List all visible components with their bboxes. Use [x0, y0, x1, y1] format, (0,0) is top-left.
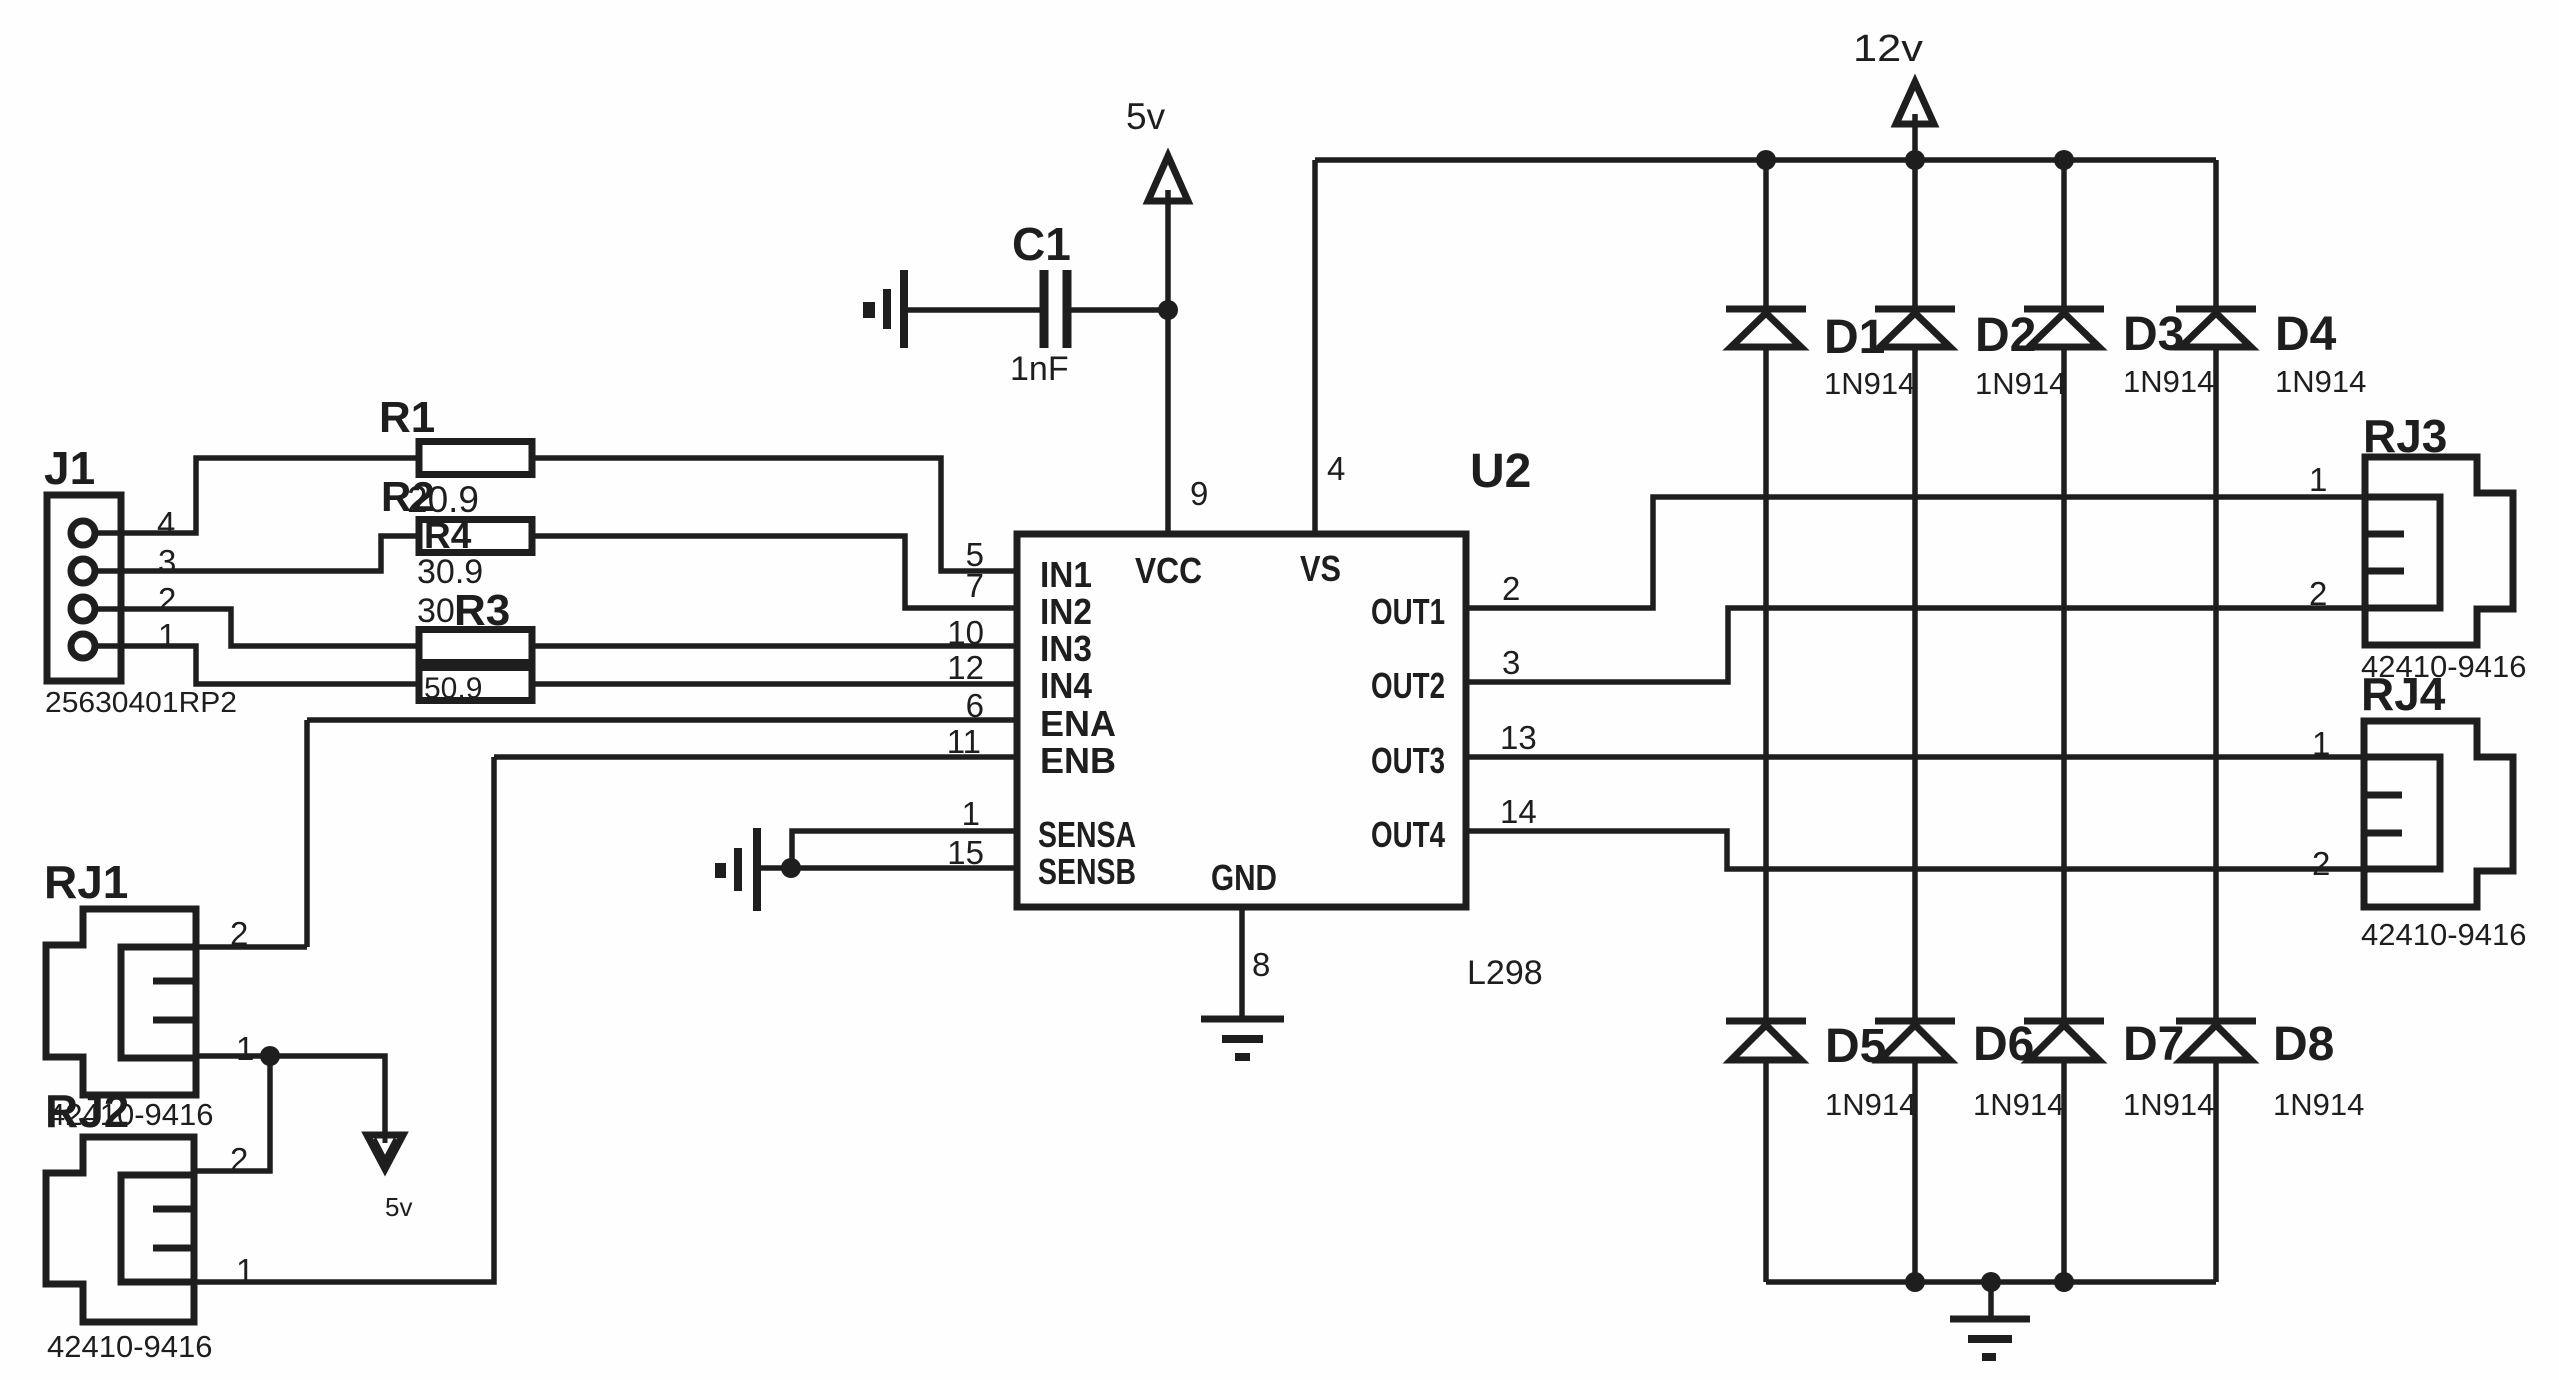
diode D5 — [1726, 1020, 1916, 1122]
svg-text:C1: C1 — [1012, 218, 1071, 270]
svg-text:20.9: 20.9 — [407, 479, 479, 520]
svg-text:1: 1 — [2312, 725, 2330, 762]
wire VS pin 4 riser — [1312, 160, 1318, 534]
node junction bus/D3 column — [2054, 150, 2074, 170]
resistor R4 body with value 50.9 — [419, 668, 532, 706]
svg-text:10: 10 — [947, 614, 984, 651]
svg-text:4: 4 — [157, 505, 175, 542]
node junction bus/D6 column — [1905, 1272, 1925, 1292]
earth ground at bottom bus — [1950, 1282, 2030, 1357]
svg-text:2: 2 — [158, 581, 176, 618]
earth ground at U2 GND — [1201, 1019, 1284, 1057]
diode D3 — [2024, 308, 2214, 399]
wire RJ1 pin2 — [196, 944, 307, 950]
node junction SENSA/SENSB — [781, 858, 801, 878]
svg-text:OUT1: OUT1 — [1371, 591, 1445, 632]
svg-text:1N914: 1N914 — [2275, 364, 2366, 399]
connector J1 — [44, 442, 237, 719]
diode D8 — [2176, 1018, 2364, 1122]
bottom ground bus wire — [1766, 1279, 2216, 1285]
svg-text:1N914: 1N914 — [1825, 1087, 1916, 1122]
svg-text:4: 4 — [1327, 450, 1345, 487]
svg-text:D2: D2 — [1975, 309, 2036, 362]
svg-text:ENA: ENA — [1040, 703, 1116, 744]
value 30. and resistor R3 label — [417, 586, 510, 635]
svg-text:J1: J1 — [44, 442, 95, 494]
svg-text:D8: D8 — [2273, 1018, 2334, 1071]
wire OUT1 to RJ3 pin1 — [1466, 497, 2365, 608]
resistor R3 body — [419, 630, 532, 663]
J1 pin 3 circle — [71, 559, 95, 583]
svg-text:5v: 5v — [385, 1192, 412, 1222]
connector RJ3 — [2309, 410, 2527, 684]
svg-text:IN2: IN2 — [1040, 591, 1092, 632]
diode D6 — [1875, 1018, 2064, 1122]
svg-text:2: 2 — [2309, 575, 2327, 612]
wire riser RJ1 pin2 to ENA — [304, 720, 310, 947]
svg-text:IN3: IN3 — [1040, 628, 1092, 669]
RJ1 part number and RJ2 label overlapping — [45, 1085, 214, 1137]
diode D7 — [2024, 1018, 2214, 1122]
wire OUT4 to RJ4 pin2 — [1466, 831, 2364, 869]
svg-text:1: 1 — [236, 1030, 254, 1067]
svg-text:L298: L298 — [1467, 954, 1543, 992]
svg-text:1N914: 1N914 — [2123, 364, 2214, 399]
wire J1.2 to R3 to U2.IN3 — [95, 609, 1017, 646]
power 12v arrow — [1853, 28, 1934, 160]
svg-text:3: 3 — [158, 543, 176, 580]
svg-text:42410-9416: 42410-9416 — [2361, 917, 2527, 952]
wire D1/D5 column — [1763, 160, 1769, 1282]
wire VCC pin 9 — [1165, 310, 1171, 534]
wire D3/D7 column — [2061, 160, 2067, 1282]
svg-text:50.9: 50.9 — [424, 672, 482, 705]
svg-text:SENSB: SENSB — [1038, 851, 1136, 892]
svg-text:D1: D1 — [1824, 311, 1885, 364]
power 5v arrow top — [1126, 96, 1188, 310]
svg-text:U2: U2 — [1470, 445, 1531, 498]
resistor R1 — [379, 393, 532, 475]
power 5v arrow down — [367, 1135, 412, 1222]
wire U2 GND pin 8 — [1239, 907, 1245, 1019]
svg-text:3: 3 — [1502, 644, 1520, 681]
connector RJ4 — [2312, 668, 2527, 952]
svg-text:2: 2 — [1502, 570, 1520, 607]
node junction bus/D1 column — [1756, 150, 1776, 170]
wire RJ1 pin1 to 5v and RJ2 pin2 — [196, 1056, 385, 1135]
svg-text:14: 14 — [1500, 793, 1537, 830]
node junction bus/D7 column — [2054, 1272, 2074, 1292]
ground (power bar) at SENSB — [715, 828, 757, 911]
svg-text:5v: 5v — [1126, 96, 1166, 137]
svg-text:1: 1 — [962, 795, 980, 832]
svg-text:9: 9 — [1190, 475, 1208, 512]
wire SENSB to ground — [760, 865, 1017, 871]
svg-text:VCC: VCC — [1135, 550, 1202, 591]
svg-text:D5: D5 — [1825, 1020, 1886, 1073]
svg-text:OUT3: OUT3 — [1371, 740, 1445, 781]
diode D4 — [2176, 308, 2366, 399]
wire D2/D6 column — [1912, 160, 1918, 1282]
connector RJ1 — [44, 856, 254, 1095]
node junction bus/12v — [1905, 150, 1925, 170]
IC U2 box — [1017, 445, 1543, 992]
J1 pin 4 circle — [71, 521, 95, 545]
svg-text:13: 13 — [1500, 719, 1537, 756]
svg-text:SENSA: SENSA — [1038, 814, 1136, 855]
wire J1.1 to R4 to U2.IN4 — [95, 646, 1017, 684]
svg-text:IN4: IN4 — [1040, 665, 1092, 706]
ground (power bar) at C1 — [863, 270, 904, 348]
wire ground to C1 — [908, 307, 1044, 313]
svg-text:IN1: IN1 — [1040, 554, 1092, 595]
wire ENA from RJ1 pin1 riser — [307, 717, 1017, 723]
resistor R2 body with R4 text — [419, 515, 532, 556]
wire C1 to 5v node — [1067, 307, 1168, 313]
wire riser RJ2 pin1 to ENB — [194, 757, 494, 1282]
resistor R2 label and R1 value 20.9 — [381, 473, 479, 520]
svg-text:1N914: 1N914 — [1975, 366, 2066, 401]
capacitor C1 — [1010, 218, 1071, 388]
svg-text:42410-9416: 42410-9416 — [47, 1329, 213, 1364]
svg-text:1nF: 1nF — [1010, 350, 1069, 388]
wire J1.4 to R1 to U2.IN1 — [95, 458, 1017, 571]
svg-text:1N914: 1N914 — [1973, 1087, 2064, 1122]
wire D4/D8 column — [2213, 160, 2219, 1282]
wire RJ2 pin2 riser — [194, 1056, 270, 1171]
svg-text:12v: 12v — [1853, 28, 1923, 70]
svg-text:1N914: 1N914 — [2273, 1087, 2364, 1122]
svg-text:D3: D3 — [2123, 308, 2184, 361]
svg-text:8: 8 — [1252, 946, 1270, 983]
wire OUT2 to RJ3 pin2 — [1466, 608, 2365, 682]
node junction bus/ground stem — [1981, 1272, 2001, 1292]
wire OUT3 to RJ4 pin1 — [1466, 754, 2364, 760]
J1 pin 2 circle — [71, 597, 95, 621]
svg-text:R4: R4 — [424, 515, 472, 556]
svg-text:25630401RP2: 25630401RP2 — [45, 687, 237, 719]
svg-text:42410-9416: 42410-9416 — [48, 1097, 214, 1132]
12v top bus wire — [1315, 157, 2216, 163]
svg-text:D4: D4 — [2275, 308, 2337, 361]
node junction RJ1 pin1 — [260, 1046, 280, 1066]
svg-text:7: 7 — [966, 567, 984, 604]
svg-text:RJ1: RJ1 — [44, 856, 128, 908]
wire J1.3 to R2 to U2.IN2 — [95, 536, 1017, 608]
svg-text:2: 2 — [2312, 845, 2330, 882]
svg-text:12: 12 — [947, 649, 984, 686]
svg-text:1: 1 — [236, 1252, 254, 1289]
svg-text:R1: R1 — [379, 393, 435, 442]
svg-text:1N914: 1N914 — [1824, 366, 1915, 401]
svg-text:OUT4: OUT4 — [1371, 814, 1445, 855]
node junction C1/5v/VCC — [1158, 300, 1178, 320]
svg-text:RJ4: RJ4 — [2361, 668, 2446, 720]
svg-text:1N914: 1N914 — [2123, 1087, 2214, 1122]
diode D2 — [1875, 309, 2066, 401]
svg-text:GND: GND — [1211, 857, 1277, 898]
connector RJ2 — [46, 1137, 254, 1364]
wire ENB from RJ2 pin1 riser — [494, 754, 1017, 760]
svg-text:ENB: ENB — [1040, 740, 1116, 781]
J1 pin 1 circle — [71, 634, 95, 658]
svg-text:OUT2: OUT2 — [1371, 665, 1445, 706]
svg-text:1: 1 — [2309, 461, 2327, 498]
diode D1 — [1726, 309, 1915, 401]
svg-text:VS: VS — [1300, 548, 1341, 589]
wire SENSA — [792, 831, 1017, 868]
